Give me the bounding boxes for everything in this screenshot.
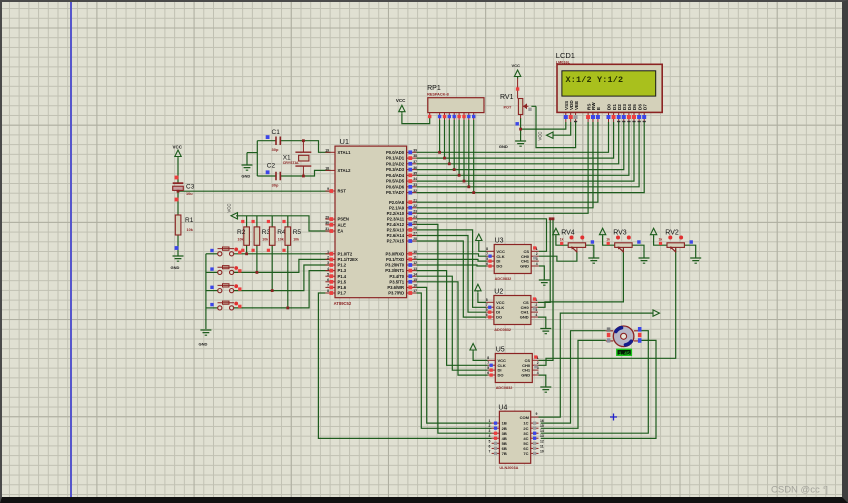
wire P0.5 bus: [416, 122, 634, 181]
capacitor C3: [173, 182, 184, 184]
ADC U2 ADC0832: [494, 296, 531, 325]
wire U4 4C to motor: [541, 340, 656, 438]
power VCC for RV2: [650, 228, 656, 235]
ground for U3: [539, 280, 550, 285]
wire RV2 VCC arm: [654, 236, 667, 245]
wire RV2 gnd arm: [684, 245, 695, 257]
wire P3.3 to U5 CLK: [416, 271, 487, 366]
wire P0.6 bus: [416, 122, 639, 187]
wire U4 COM to arrow: [539, 313, 654, 417]
wire U3 GND arm: [539, 266, 545, 280]
wire RV1 wiper pin: [523, 105, 529, 107]
wire VDD to VCC arrow: [553, 122, 571, 135]
wire RV4 VCC arm: [556, 236, 568, 245]
wire P2.4 to U4 3B: [416, 224, 491, 433]
ground for RV1: [515, 141, 526, 146]
wire gnd stem: [246, 153, 248, 165]
wire RV1 wiper stub: [531, 105, 536, 107]
power VCC for RV4: [553, 228, 559, 235]
capacitor C2: [276, 172, 280, 181]
wire P1.7 to U4 4B: [318, 293, 491, 438]
wire btn2 to P1.1: [234, 259, 331, 272]
wire R4 top stub: [271, 216, 273, 227]
wire P2.6 to U2 DI: [416, 236, 486, 313]
wire RP1 pin6 to P0.4: [458, 120, 460, 175]
wire P3.4 to U5 DI: [416, 276, 487, 370]
wire RP1 pin8 to P0.6: [468, 120, 470, 187]
wire E to P2.0: [416, 122, 598, 202]
wire RV3 gnd arm: [632, 245, 644, 257]
wire U2 GND arm: [538, 317, 546, 328]
wire RS to P2.2: [416, 122, 588, 213]
LCD display LCD1 LM016L: [557, 64, 662, 112]
wire U2 VCC arm: [478, 293, 486, 302]
wire U2 CS riser: [538, 219, 550, 303]
wire btn4 to P1.3: [234, 271, 331, 308]
wire R5 bottom: [287, 245, 289, 308]
wire RP1 pin9 to P0.7: [473, 120, 475, 193]
wire U4 3C to motor: [541, 331, 649, 434]
wire U4 1C to motor: [541, 331, 606, 423]
ground for U5: [540, 387, 551, 392]
wire C2 left: [257, 175, 276, 177]
ADC U5 ADC0832: [495, 354, 532, 383]
wire P3.5 to U5 DO: [416, 282, 487, 375]
wire RP1 pin7 to P0.5: [463, 120, 465, 181]
wire P2.5 to U2 CLK: [416, 230, 486, 307]
wire VSS to GND node: [521, 122, 566, 129]
power VCC for LCD VDD: [547, 132, 554, 138]
ground for C1 C2: [242, 165, 253, 170]
resistor R1: [175, 215, 181, 235]
button SW4: [218, 306, 222, 310]
wire R2 top stub: [246, 216, 248, 227]
wire junctions: [245, 252, 248, 255]
power VCC for RV1: [514, 70, 520, 77]
button SW2: [218, 270, 222, 274]
wire button left stub: [206, 290, 218, 292]
potentiometer RV1: [518, 99, 522, 115]
wire R4 bottom: [271, 245, 273, 290]
resistor R3: [254, 227, 260, 245]
wire P0.3 bus: [416, 122, 624, 170]
power arrow for motor supply: [653, 310, 660, 316]
stepper motor M1: [613, 326, 634, 347]
wire button left stub: [206, 307, 218, 309]
button SW3: [218, 289, 222, 293]
resistor pack RP1 RESPACK-8: [428, 98, 484, 113]
ground for RV2: [690, 258, 701, 263]
resistor R2: [244, 227, 250, 245]
wire P0.2 bus: [416, 122, 618, 164]
power VCC for EA: [231, 213, 238, 219]
wire R2 bottom: [246, 245, 248, 254]
wire gnd branch: [247, 152, 257, 154]
wire RV1 bottom: [520, 118, 522, 141]
wire RV3 VCC arm: [603, 236, 615, 245]
wire U5 GND arm: [539, 375, 546, 386]
wire C2 right to XTAL2: [280, 170, 330, 176]
wire RST net: [178, 190, 331, 192]
wire P3.6 to U4 1B: [416, 287, 491, 423]
wire P0.7 bus: [416, 122, 644, 193]
wire RP1 pin2 to P0.0: [439, 120, 441, 152]
power VCC for U2: [475, 284, 481, 291]
ground for U2: [540, 329, 551, 334]
potentiometer RV2: [667, 243, 684, 248]
wire button left stub: [206, 253, 218, 255]
wire U3 CS to P2.3: [416, 219, 546, 252]
wire VCC to RP1 pin1: [402, 114, 430, 124]
wire U4 2C to motor: [541, 340, 606, 428]
wire VCC rail to EA: [236, 216, 331, 231]
wire RV1 top stub: [517, 77, 519, 99]
origin marker: [610, 414, 617, 421]
button SW1: [218, 252, 222, 256]
power VCC for RV3: [599, 228, 605, 235]
ground for RV3: [639, 258, 650, 263]
wire VCC to C3: [177, 159, 179, 184]
wire P0.0 bus: [416, 122, 608, 152]
ground for buttons: [200, 330, 211, 335]
wire C1 left: [257, 140, 276, 142]
ADC U3 ADC0832: [494, 245, 531, 274]
resistor R5: [285, 227, 291, 245]
potentiometer RV3: [615, 243, 632, 248]
wire P3.2 to U3 DO: [416, 265, 486, 266]
power VCC for U3: [476, 234, 482, 241]
capacitor C1: [276, 137, 280, 146]
potentiometer RV4: [568, 243, 585, 248]
wire RW to P2.1: [416, 122, 593, 208]
power VCC for U5: [470, 344, 476, 351]
wire btn3 to P1.2: [234, 265, 331, 291]
wire X1 top stub: [302, 141, 304, 153]
wire P0.1 bus: [416, 122, 613, 158]
wire X1 bottom stub: [302, 166, 304, 176]
wire P3.1 to U3 DI: [416, 259, 486, 261]
wire RP1 pin5 to P0.3: [453, 120, 455, 170]
wire C1 right to XTAL1: [280, 141, 330, 153]
wire P0.4 bus: [416, 122, 629, 175]
crystal X1: [295, 152, 311, 166]
wire R5 top stub: [287, 216, 289, 227]
wire U5 VCC arm: [473, 352, 488, 360]
ground below R1: [173, 256, 184, 261]
wire C3 to RST node: [177, 189, 179, 215]
wire RV4 gnd arm: [586, 245, 594, 257]
wire U5 CS riser: [539, 219, 554, 361]
wire btn1 to P1.0: [234, 253, 331, 255]
wire R3 bottom: [256, 245, 258, 272]
op-amp U1 microcontroller AT89C52: [335, 146, 407, 298]
wire button left stub: [206, 271, 218, 273]
wire RP1 pin4 to P0.2: [448, 120, 450, 164]
wire RV2 wiper to U5 CH0: [539, 248, 676, 365]
resistor R4: [269, 227, 275, 245]
power VCC top-left: [175, 150, 181, 157]
wire RP1 pin3 to P0.1: [444, 120, 446, 158]
wire R3 top stub: [256, 216, 258, 227]
wire VEE to RV1 wiper: [536, 106, 576, 147]
wire R1 to GND: [177, 235, 179, 256]
darlington array U4 ULN2003A: [499, 411, 530, 463]
wire P3.7 to U4 2B: [416, 293, 491, 428]
wire gnd node vertical: [256, 141, 258, 176]
wire P3.0 to U3 CLK: [416, 254, 486, 256]
power VCC for RP1: [399, 105, 405, 112]
wire button bus: [205, 254, 207, 329]
wire P2.7 to U2 DO: [416, 241, 486, 317]
wire RV4 wiper to U3 CH0: [539, 252, 577, 262]
wire U3 VCC arm: [479, 243, 487, 252]
ground for RV4: [588, 258, 599, 263]
wire RV3 wiper to U2 CH0: [538, 248, 623, 307]
